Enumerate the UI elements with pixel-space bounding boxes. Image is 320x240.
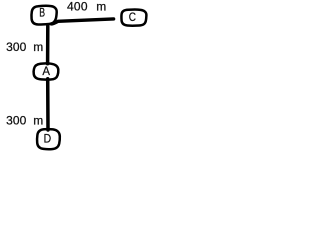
node A xyxy=(34,63,59,79)
wire B-A (300 m edge) xyxy=(46,25,50,64)
wire A-D (300 m edge) xyxy=(46,79,50,130)
svg-text:B: B xyxy=(39,6,45,20)
svg-text:400: 400 xyxy=(67,0,88,13)
svg-text:300: 300 xyxy=(6,113,27,127)
node C xyxy=(121,10,146,26)
svg-text:m: m xyxy=(33,40,43,54)
svg-text:m: m xyxy=(33,113,43,127)
svg-text:D: D xyxy=(44,131,52,145)
svg-text:C: C xyxy=(129,10,136,24)
svg-text:A: A xyxy=(42,64,50,78)
svg-text:300: 300 xyxy=(6,40,27,54)
node B xyxy=(31,6,56,25)
node D xyxy=(37,129,60,149)
svg-text:m: m xyxy=(96,0,106,13)
wire B-C (400 m edge) xyxy=(51,19,113,24)
